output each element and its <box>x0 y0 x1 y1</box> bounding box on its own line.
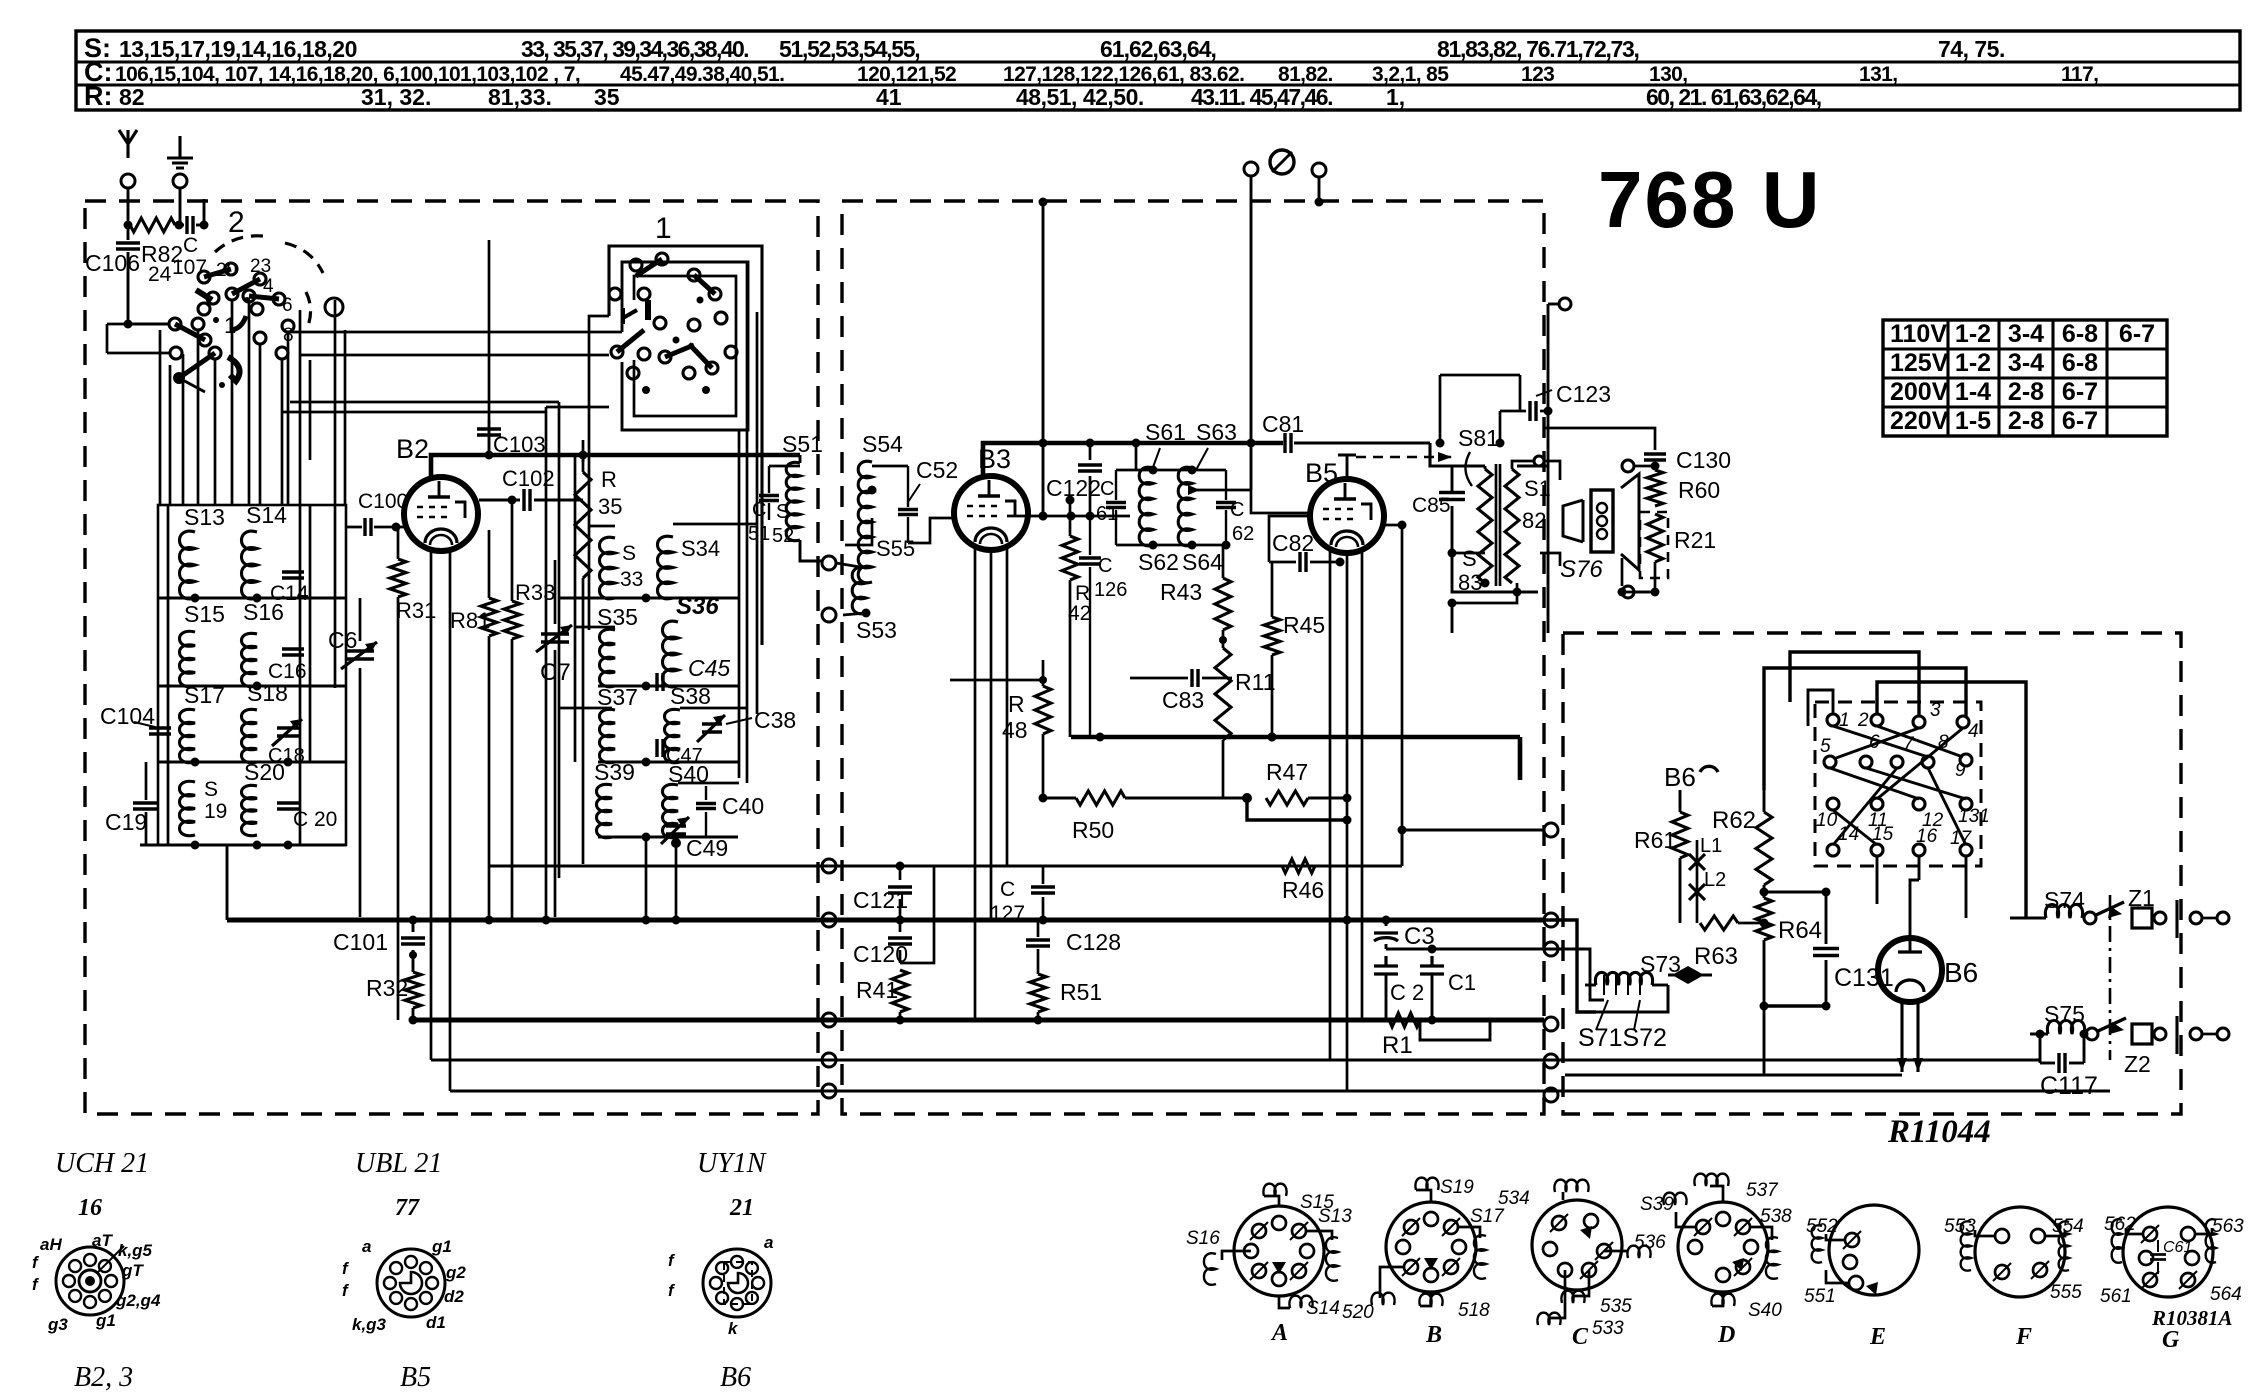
socket D coil S39 <box>1640 1193 1695 1227</box>
svg-text:a: a <box>362 1237 371 1256</box>
socket F coil S54 <box>2045 1216 2084 1271</box>
socket A circle <box>1234 1206 1324 1296</box>
wire C19 drop <box>140 762 146 845</box>
svg-text:R: R <box>601 467 617 492</box>
svg-text:C19: C19 <box>105 809 147 835</box>
capacitor C61 <box>1096 470 1126 545</box>
svg-text:S17: S17 <box>1470 1206 1505 1227</box>
svg-text:C122: C122 <box>1046 475 1101 501</box>
svg-text:k,g5: k,g5 <box>118 1241 153 1260</box>
label S20 <box>244 759 285 785</box>
capacitor C106 <box>85 237 140 324</box>
svg-text:aH: aH <box>40 1235 62 1254</box>
svg-text:C103: C103 <box>493 432 546 457</box>
svg-text:g2,g4: g2,g4 <box>115 1291 161 1310</box>
coil S15 <box>179 631 195 686</box>
svg-text:C40: C40 <box>722 793 764 819</box>
svg-text:B: B <box>1425 1322 1442 1348</box>
tube B6 rectifier <box>1878 938 1942 1072</box>
svg-text:6-8: 6-8 <box>2062 349 2098 377</box>
svg-text:8: 8 <box>1938 732 1949 753</box>
svg-text:C83: C83 <box>1162 687 1204 713</box>
wire mid bank row3 <box>598 758 738 767</box>
bus drops left <box>227 845 413 1020</box>
svg-text:S37: S37 <box>597 684 638 710</box>
svg-text:107: 107 <box>172 256 207 279</box>
resistor R1 <box>1382 1013 1490 1059</box>
capacitor C122 <box>1046 439 1102 521</box>
label B5 bottom <box>400 1362 431 1393</box>
label 77 <box>395 1195 420 1221</box>
connector terminal x829 y563 <box>822 556 836 570</box>
svg-text:2: 2 <box>228 206 245 239</box>
socket B coil S17 <box>1459 1206 1505 1279</box>
svg-text:g3: g3 <box>47 1315 68 1334</box>
label C <box>1572 1324 1589 1350</box>
label S55 <box>876 536 915 561</box>
svg-text:UBL 21: UBL 21 <box>355 1148 442 1179</box>
label R103810 <box>2151 1306 2233 1330</box>
svg-text:R63: R63 <box>1694 943 1738 970</box>
capacitor C85 <box>1412 493 1465 518</box>
socket G label 561 <box>2100 1286 2132 1307</box>
coil S53 <box>852 567 866 614</box>
svg-text:15: 15 <box>1872 824 1894 845</box>
label E <box>1869 1324 1886 1350</box>
bus wire y737 (thick) <box>1071 733 1520 781</box>
svg-text:B2: B2 <box>396 434 429 464</box>
svg-text:G: G <box>2162 1327 2180 1353</box>
capacitor C131 <box>1813 892 1894 1006</box>
socket C circle <box>1532 1200 1622 1290</box>
capacitor C51 <box>748 466 779 545</box>
svg-text:3-4: 3-4 <box>2008 349 2044 377</box>
svg-text:S: S <box>204 778 218 801</box>
resistor R41 <box>856 970 908 1025</box>
switch2 vertical wires <box>160 300 345 505</box>
svg-text:C81: C81 <box>1262 411 1304 437</box>
label S51 <box>782 431 823 457</box>
capacitor C2 <box>1374 956 1424 1020</box>
coil S19 <box>179 781 195 835</box>
svg-text:C: C <box>1098 555 1112 577</box>
svg-text:10: 10 <box>1816 810 1838 831</box>
svg-text:k: k <box>728 1319 739 1338</box>
svg-text:23: 23 <box>250 256 271 277</box>
svg-text:19: 19 <box>204 800 227 823</box>
svg-text:C128: C128 <box>1066 929 1121 955</box>
wire S51 top <box>769 455 800 466</box>
wire transformer to box3 <box>1448 599 1457 634</box>
svg-text:2: 2 <box>1857 710 1869 731</box>
svg-text:9: 9 <box>1955 760 1966 781</box>
svg-text:42: 42 <box>1068 602 1091 625</box>
wire y1091 into box3 <box>1544 1075 2110 1091</box>
connector terminal x829 y1091 <box>822 1084 836 1098</box>
B5 lead wires <box>1330 550 1362 1091</box>
capacitor C47 <box>657 739 703 767</box>
label 21 <box>729 1195 754 1221</box>
svg-text:S36: S36 <box>676 593 719 620</box>
svg-text:551: 551 <box>1804 1286 1836 1307</box>
coil S37 <box>599 709 615 762</box>
socket G pins <box>2139 1225 2199 1289</box>
svg-text:B6: B6 <box>1944 957 1978 988</box>
svg-text:S19: S19 <box>1440 1177 1474 1198</box>
coil S62 <box>1138 467 1179 575</box>
svg-text:S: S <box>776 501 789 523</box>
svg-text:6-7: 6-7 <box>2062 378 2098 406</box>
svg-text:d2: d2 <box>444 1287 464 1306</box>
socket A coil S16 <box>1186 1228 1251 1285</box>
tube B5 <box>1310 479 1384 553</box>
svg-text:1: 1 <box>655 212 672 245</box>
selector pin numbers <box>1816 700 1990 849</box>
svg-text:110V: 110V <box>1890 320 1947 348</box>
svg-text:562: 562 <box>2104 1214 2136 1235</box>
svg-text:123: 123 <box>1521 63 1554 86</box>
capacitor C121 <box>853 862 912 925</box>
voltage selector table <box>1883 320 2167 436</box>
svg-text:20: 20 <box>216 260 237 281</box>
svg-text:S38: S38 <box>670 683 711 709</box>
svg-text:C: C <box>752 499 766 521</box>
svg-text:S20: S20 <box>244 759 285 785</box>
variable capacitor C6 <box>328 598 377 917</box>
svg-text:4: 4 <box>1968 721 1979 742</box>
label S38 <box>670 683 711 709</box>
svg-text:520: 520 <box>1342 1302 1374 1323</box>
svg-text:S40: S40 <box>1748 1300 1782 1321</box>
svg-text:60, 21. 61,63,62,64,: 60, 21. 61,63,62,64, <box>1646 84 1821 110</box>
svg-text:77: 77 <box>395 1195 420 1221</box>
svg-text:533: 533 <box>1592 1318 1624 1339</box>
svg-text:B6: B6 <box>1664 762 1696 792</box>
fuse Z1 <box>2128 885 2166 928</box>
socket E pins <box>1843 1231 1878 1295</box>
resistor R21 dashed box <box>1640 512 1668 578</box>
label F <box>2015 1324 2032 1350</box>
resistor R47 <box>1247 759 1352 825</box>
wire speaker bottom <box>1540 553 1655 598</box>
B3 lead wires <box>975 549 1007 1020</box>
wire S62 bottom <box>1116 541 1231 550</box>
svg-text:S55: S55 <box>876 536 915 561</box>
svg-text:C117: C117 <box>2040 1072 2098 1100</box>
svg-text:552: 552 <box>1806 1216 1838 1237</box>
svg-text:2-8: 2-8 <box>2008 378 2044 406</box>
svg-text:S71S72: S71S72 <box>1578 1024 1667 1052</box>
label UY 1N <box>697 1148 767 1179</box>
wire C130 top <box>1544 428 1655 440</box>
antenna <box>119 130 137 158</box>
svg-text:C: C <box>183 234 198 257</box>
connector terminal x1551 y1095 <box>1544 1088 1558 1102</box>
svg-text:aT: aT <box>92 1231 113 1250</box>
svg-text:535: 535 <box>1600 1296 1632 1317</box>
svg-text:24: 24 <box>148 263 172 286</box>
wire S64 tap <box>1188 485 1310 513</box>
svg-text:g2: g2 <box>445 1263 466 1282</box>
switch1 row connector wires <box>546 455 757 783</box>
label S18 <box>247 680 288 706</box>
parts table row R <box>84 81 1821 111</box>
socket F circle <box>1975 1207 2065 1297</box>
svg-text:R41: R41 <box>856 977 898 1003</box>
coil S74 <box>2010 887 2096 924</box>
svg-text:S: S <box>1462 546 1477 571</box>
svg-text:3-4: 3-4 <box>2008 320 2044 348</box>
label S33 <box>620 542 643 591</box>
switch1 frame rails <box>546 262 757 917</box>
label S61 <box>1145 419 1186 470</box>
capacitor C82 <box>1269 530 1345 572</box>
resistor R64 <box>1756 888 1822 1007</box>
capacitor C19 <box>105 803 159 835</box>
wire S54 to C52 <box>868 466 955 543</box>
socket B pins <box>1396 1212 1466 1282</box>
svg-text:74, 75.: 74, 75. <box>1938 36 2005 62</box>
tube base UY1N <box>703 1249 771 1317</box>
svg-text:R33: R33 <box>515 580 555 605</box>
capacitor C128 <box>1026 920 1121 974</box>
coil S16 <box>241 633 257 686</box>
connector terminal x829 y615 <box>822 608 836 622</box>
parts table row S <box>84 33 2005 63</box>
label 16 <box>78 1195 102 1221</box>
B2 anode heavy wire <box>431 451 800 478</box>
variable capacitor C49 <box>661 817 728 861</box>
capacitor C45 <box>657 655 730 691</box>
capacitor C120 <box>853 866 934 967</box>
svg-text:41: 41 <box>876 84 902 110</box>
svg-text:5: 5 <box>1820 736 1831 757</box>
svg-text:UY1N: UY1N <box>697 1148 767 1179</box>
svg-text:13,15,17,19,14,16,18,20: 13,15,17,19,14,16,18,20 <box>119 36 357 62</box>
svg-text:S62: S62 <box>1138 549 1179 575</box>
resistor R51 <box>1030 974 1102 1025</box>
resistor R81 <box>450 530 497 925</box>
wire mid bank row2 <box>598 682 738 691</box>
coil S54 S55 <box>858 461 872 583</box>
svg-text:S35: S35 <box>597 604 638 630</box>
parts table frame <box>76 31 2240 110</box>
svg-text:S74: S74 <box>2044 887 2085 913</box>
svg-text:C49: C49 <box>686 835 728 861</box>
svg-text:B6: B6 <box>720 1362 751 1393</box>
socket A coil S14 <box>1279 1296 1340 1319</box>
svg-text:R: R <box>1008 691 1025 717</box>
label S 83 <box>1458 546 1482 595</box>
connector terminal x1551 y949 <box>1544 942 1558 956</box>
svg-text:Z2: Z2 <box>2124 1051 2151 1077</box>
svg-text:R1: R1 <box>1382 1032 1413 1059</box>
socket G coil S63 <box>2195 1216 2244 1263</box>
label S13 <box>184 504 225 530</box>
terminal gramophone left <box>1244 162 1258 490</box>
svg-text:C: C <box>1230 499 1244 521</box>
svg-text:2-8: 2-8 <box>2008 407 2044 435</box>
chassis box 1 (dashed) <box>85 201 818 1114</box>
svg-text:S76: S76 <box>1560 556 1603 583</box>
svg-text:81,83,82, 76.71,72,73,: 81,83,82, 76.71,72,73, <box>1437 36 1639 62</box>
connector terminal x1551 y1061 <box>1544 1054 1558 1068</box>
wire S53 ends <box>836 563 871 618</box>
socket C coil S35 <box>1561 1270 1632 1317</box>
label S40 <box>668 761 709 787</box>
svg-text:125V: 125V <box>1890 349 1949 377</box>
fuse Z2 <box>2124 1024 2166 1077</box>
svg-text:S73: S73 <box>1640 951 1681 977</box>
coil S73 <box>1585 951 1681 995</box>
capacitor C14 <box>270 572 309 605</box>
svg-text:1-4: 1-4 <box>1955 378 1991 406</box>
capacitor C103 <box>477 240 546 457</box>
resistor R48 <box>1002 660 1051 803</box>
svg-text:C45: C45 <box>688 655 730 681</box>
socket C coil S34 <box>1498 1180 1589 1209</box>
resistor R46 <box>1245 859 1324 903</box>
wire secondary to speaker <box>1512 456 1660 480</box>
svg-text:81,82.: 81,82. <box>1278 63 1333 86</box>
svg-text:g1: g1 <box>95 1311 116 1330</box>
capacitor C127 <box>990 866 1055 925</box>
svg-text:C6: C6 <box>328 627 357 653</box>
socket F label S55 <box>2050 1282 2082 1303</box>
label switch 1 <box>655 212 672 245</box>
connector terminal x829 y1060 <box>822 1053 836 1067</box>
svg-text:120,121,52: 120,121,52 <box>857 63 956 86</box>
svg-text:33, 35,37, 39,34,36,38,40.: 33, 35,37, 39,34,36,38,40. <box>521 36 748 62</box>
node top-left junction <box>200 199 209 230</box>
svg-text:4: 4 <box>263 276 274 297</box>
resistor R63 <box>1694 912 1769 970</box>
svg-text:C101: C101 <box>333 929 388 955</box>
capacitor C20 <box>277 803 337 831</box>
socket G capacitor C61 <box>2150 1239 2192 1274</box>
wire box3 bottom bus <box>1596 985 1668 1012</box>
svg-text:R32: R32 <box>366 975 408 1001</box>
svg-text:52: 52 <box>772 525 794 547</box>
wire bank row1 <box>158 594 346 603</box>
variable capacitor C18 <box>268 719 305 767</box>
connector terminal x829 y920 <box>822 913 836 927</box>
resistor R31 <box>390 527 436 1020</box>
svg-text:S15: S15 <box>184 601 225 627</box>
socket A coil S13 <box>1307 1206 1352 1281</box>
svg-text:S53: S53 <box>856 617 897 643</box>
coil S40 <box>662 784 678 837</box>
capacitor C52 <box>898 457 958 543</box>
socket B coil S19 <box>1415 1177 1474 1202</box>
connector terminal x829 y866 <box>822 859 836 873</box>
socket A coil S15 <box>1263 1184 1334 1213</box>
svg-text:R51: R51 <box>1060 979 1102 1005</box>
svg-text:C52: C52 <box>916 457 958 483</box>
capacitor C3 <box>1374 916 1435 951</box>
svg-text:131,: 131, <box>1859 63 1897 86</box>
svg-text:B2, 3: B2, 3 <box>74 1362 133 1393</box>
svg-text:S13: S13 <box>184 504 225 530</box>
svg-text:1-2: 1-2 <box>1955 320 1991 348</box>
svg-text:C: C <box>1100 478 1114 500</box>
label S71 S72 <box>1578 1000 1667 1052</box>
svg-text:A: A <box>1270 1320 1288 1346</box>
svg-text:6-7: 6-7 <box>2062 407 2098 435</box>
svg-text:48: 48 <box>1002 717 1028 743</box>
label S34 <box>681 536 720 561</box>
mains terminals right bottom <box>2177 1016 2229 1054</box>
terminal gramophone right <box>1312 163 1326 207</box>
label S35 <box>597 604 638 630</box>
svg-text:R45: R45 <box>1283 612 1325 638</box>
svg-text:S13: S13 <box>1318 1206 1352 1227</box>
label S52 <box>772 501 794 547</box>
svg-text:C1: C1 <box>1448 970 1476 995</box>
switch contact labels 20 23 4 6 8 24 1 <box>148 256 294 346</box>
svg-text:S39: S39 <box>1640 1194 1674 1215</box>
svg-text:R50: R50 <box>1072 817 1114 843</box>
svg-text:R21: R21 <box>1674 527 1716 553</box>
svg-text:554: 554 <box>2052 1216 2084 1237</box>
capacitor C40 <box>696 786 764 837</box>
svg-text:45.47,49.38,40,51.: 45.47,49.38,40,51. <box>620 63 784 86</box>
label S16 <box>243 599 284 625</box>
svg-text:S34: S34 <box>681 536 720 561</box>
svg-text:a: a <box>764 1233 773 1252</box>
svg-text:768 U: 768 U <box>1598 155 1821 244</box>
tube B3 <box>954 476 1028 550</box>
label S19 <box>204 778 227 823</box>
chassis box 2 (dashed) <box>842 201 1544 1114</box>
label S37 <box>597 684 638 710</box>
wire y1060 into box3 <box>1544 1060 2040 1063</box>
resistor R61 <box>1634 790 1688 923</box>
svg-text:1-2: 1-2 <box>1955 349 1991 377</box>
svg-text:S64: S64 <box>1182 549 1223 575</box>
svg-text:62: 62 <box>1232 523 1254 545</box>
wire ground down <box>175 188 184 230</box>
svg-text:220V: 220V <box>1890 407 1949 435</box>
svg-text:C106: C106 <box>85 250 140 276</box>
label B2 <box>396 434 429 464</box>
svg-text:538: 538 <box>1760 1206 1792 1227</box>
coil S51 S52 <box>786 462 800 540</box>
B5 grid wire <box>1269 516 1310 562</box>
svg-text:S16: S16 <box>1186 1228 1220 1249</box>
wire B5 anode down <box>1384 521 1407 867</box>
label S14 <box>246 502 287 528</box>
svg-text:R43: R43 <box>1160 579 1202 605</box>
svg-text:S: S <box>622 542 636 565</box>
wire bank bottom <box>140 841 346 850</box>
socket G coil S62 <box>2104 1214 2143 1263</box>
transformer core <box>1496 464 1500 586</box>
wire antenna down <box>124 188 133 237</box>
svg-text:16: 16 <box>78 1195 102 1221</box>
B3 anode wire <box>983 443 1283 479</box>
svg-text:35: 35 <box>594 84 620 110</box>
label S15 <box>184 601 225 627</box>
variable capacitor C38 <box>697 707 796 742</box>
svg-text:106,15,104, 107, 14,16,18,20,: 106,15,104, 107, 14,16,18,20, 6,100,101,… <box>115 63 580 86</box>
svg-text:21: 21 <box>729 1195 754 1221</box>
wire B5 lead to C3 <box>1330 820 1386 933</box>
svg-text:6-8: 6-8 <box>2062 320 2098 348</box>
wire C131 R64 bottom <box>1760 1002 1831 1076</box>
socket G label 564 <box>2210 1284 2242 1305</box>
bus wire y1060 <box>431 1059 1544 1062</box>
